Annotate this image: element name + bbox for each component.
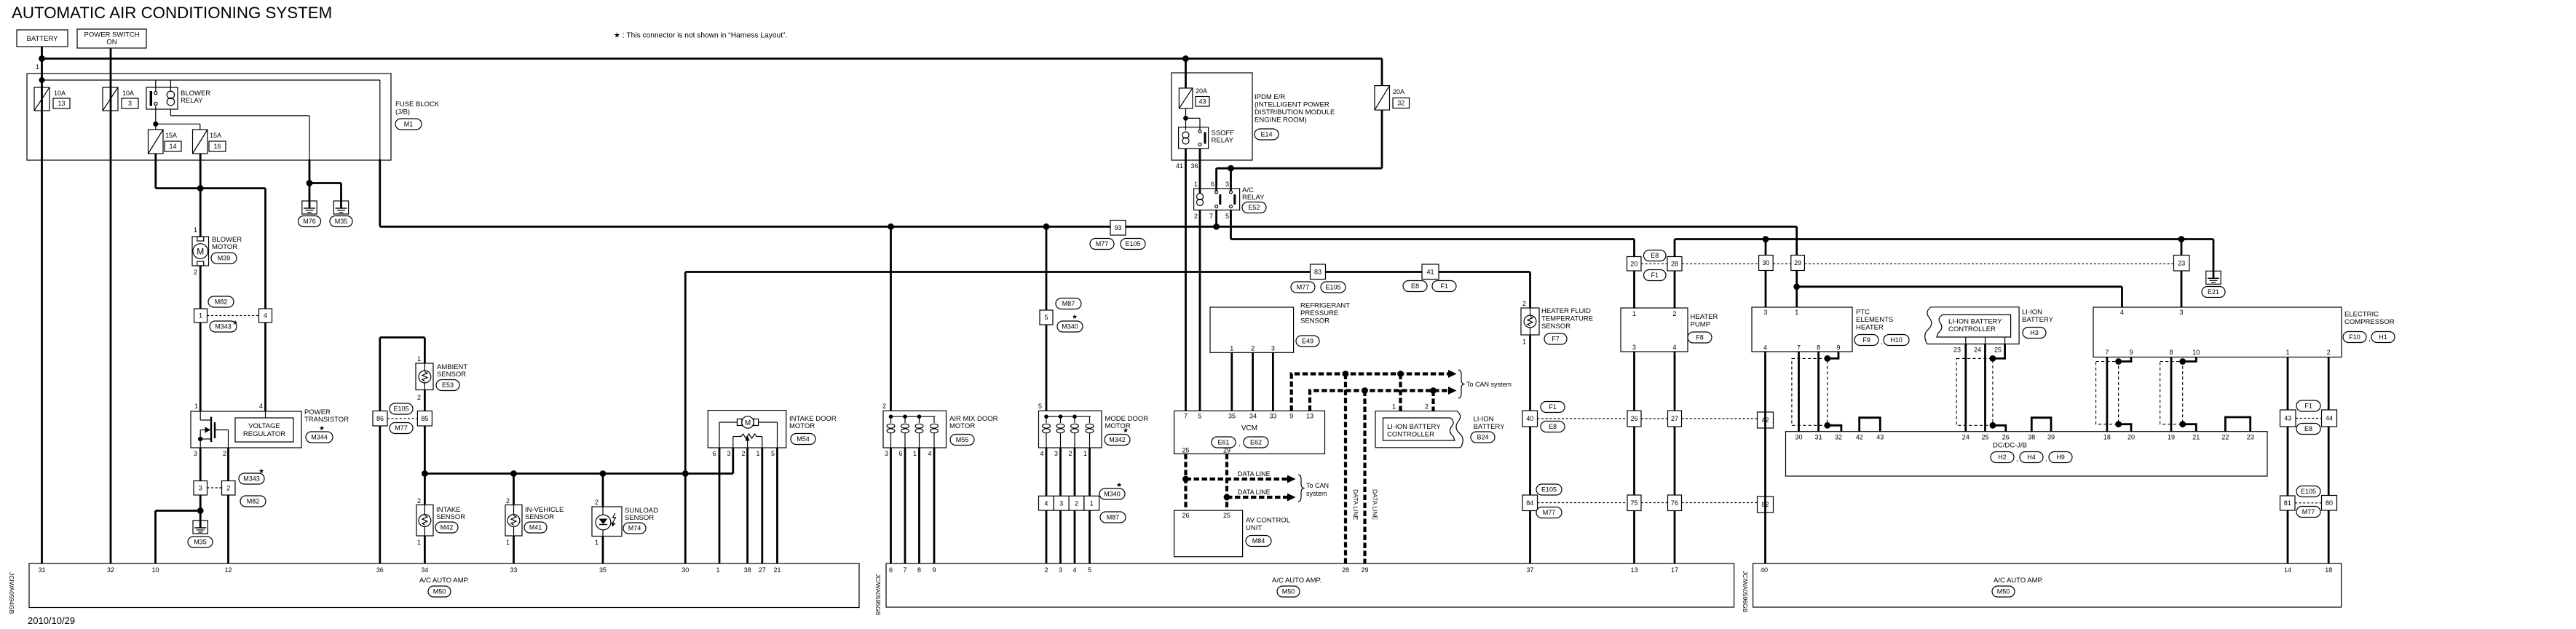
wire B24 pin2 <box>1431 391 1434 411</box>
svg-text:1: 1 <box>36 63 39 71</box>
motor leads <box>719 422 737 423</box>
svg-text:86: 86 <box>376 415 384 422</box>
svg-text:M343: M343 <box>243 475 260 483</box>
wire CAN upper from VCM9 <box>1292 374 1451 411</box>
fuse block (J/B) M1 <box>27 74 391 160</box>
svg-text:2: 2 <box>882 403 886 410</box>
svg-text:10A: 10A <box>54 90 66 97</box>
svg-text:7: 7 <box>1209 213 1213 220</box>
node IPDM branch <box>1182 55 1189 62</box>
svg-text:SENSOR: SENSOR <box>1300 317 1330 325</box>
svg-text:41: 41 <box>1426 268 1434 275</box>
voltage regulator <box>235 418 293 442</box>
svg-text:TEMPERATURE: TEMPERATURE <box>1541 315 1593 323</box>
svg-text:★: ★ <box>319 424 325 432</box>
svg-text:27: 27 <box>759 566 766 574</box>
svg-text:43: 43 <box>2284 415 2291 422</box>
svg-text:3: 3 <box>2179 309 2183 316</box>
svg-text:3: 3 <box>1054 450 1058 457</box>
connector M82/M343 pin 1 <box>194 309 208 323</box>
svg-text:25: 25 <box>1994 347 2002 354</box>
power switch on <box>77 29 146 48</box>
svg-text:23: 23 <box>1953 347 1961 354</box>
svg-text:E8: E8 <box>1651 252 1659 259</box>
node CAN data28 <box>1343 371 1349 377</box>
svg-text:H4: H4 <box>2027 454 2036 461</box>
wire bus to fuse43 <box>1185 59 1187 89</box>
svg-text:2010/10/29: 2010/10/29 <box>28 615 75 626</box>
svg-text:1: 1 <box>199 312 202 320</box>
svg-text:M82: M82 <box>215 298 228 306</box>
svg-text:H1: H1 <box>2379 333 2387 341</box>
svg-text:ON: ON <box>106 39 116 47</box>
node blower feed <box>197 185 204 191</box>
svg-text:7: 7 <box>2105 349 2109 356</box>
svg-text:1: 1 <box>913 450 917 457</box>
svg-text:84: 84 <box>1526 499 1533 507</box>
svg-text:DATA LINE: DATA LINE <box>1238 470 1271 478</box>
node fuse bus <box>39 77 45 83</box>
svg-text:4: 4 <box>1672 344 1676 351</box>
svg-text:1: 1 <box>1194 181 1198 188</box>
li-ion battery controller box 2 <box>1937 314 2011 337</box>
svg-text:F8: F8 <box>1696 334 1704 341</box>
node CAN data29 <box>1362 387 1368 394</box>
node PT ground <box>197 507 204 514</box>
svg-text:E53: E53 <box>442 381 454 389</box>
svg-text:26: 26 <box>1630 415 1637 422</box>
wire relay pin5 line B left <box>1230 210 1232 240</box>
svg-text:25: 25 <box>1223 512 1230 519</box>
svg-text:RELAY: RELAY <box>181 97 203 105</box>
shield dashed box PTC <box>1792 358 1828 425</box>
jumper 22-23 <box>2225 417 2250 432</box>
svg-text:VCM: VCM <box>1241 424 1257 432</box>
shield dashed box comp 1 <box>2096 362 2119 424</box>
svg-text:M35: M35 <box>335 218 348 225</box>
wire SSOFF 36 to AC relay 1 <box>1199 149 1201 194</box>
svg-text:CONTROLLER: CONTROLLER <box>1948 325 1996 333</box>
svg-text:REGULATOR: REGULATOR <box>243 430 285 438</box>
svg-text:2: 2 <box>1425 403 1429 411</box>
svg-text:5: 5 <box>1038 403 1042 410</box>
ground E21 <box>2213 240 2215 272</box>
connector 83 M77/E105 <box>1311 264 1326 280</box>
svg-text:2: 2 <box>1068 450 1072 457</box>
svg-text:★ : This connector is not show: ★ : This connector is not shown in “Harn… <box>614 32 787 40</box>
wire VCM25 data <box>1184 454 1187 510</box>
svg-text:E52: E52 <box>1248 204 1260 211</box>
svg-text:CONTROLLER: CONTROLLER <box>1387 431 1434 439</box>
wire M54 pin5 to amp21 <box>776 448 778 563</box>
fuse 32 20A <box>1381 59 1383 86</box>
wire fuse bus <box>42 79 380 81</box>
svg-text:2: 2 <box>506 497 510 505</box>
node compressor pin3 <box>2178 236 2185 242</box>
wire comp pin1 to amp14 <box>2287 357 2289 564</box>
svg-text:23: 23 <box>2178 259 2185 266</box>
wire M54 pin6 to amp1 <box>719 448 721 563</box>
wire PT pin3 down <box>199 448 202 481</box>
svg-text:5: 5 <box>1198 413 1201 420</box>
connector 75 <box>1627 495 1641 511</box>
svg-text:E105: E105 <box>2301 488 2316 495</box>
connector 20 <box>1633 240 1635 257</box>
svg-text:E49: E49 <box>1302 338 1313 345</box>
ground M35 <box>333 201 348 214</box>
svg-text:80: 80 <box>2326 499 2333 507</box>
svg-text:17: 17 <box>1671 566 1678 574</box>
svg-text:RELAY: RELAY <box>1212 137 1234 145</box>
svg-text:JCIWA0594GB: JCIWA0594GB <box>8 572 15 614</box>
svg-text:M41: M41 <box>529 524 542 531</box>
node air mix feed <box>888 223 894 230</box>
svg-text:6: 6 <box>898 450 902 457</box>
wire H3 pin25 shield <box>1993 344 2005 359</box>
svg-text:M343: M343 <box>215 323 232 331</box>
wire amp pin30 sensor line <box>684 272 687 564</box>
wire comp pin2 to amp18 <box>2328 357 2330 564</box>
wire SSOFF 41 to VCM7 <box>1185 149 1187 411</box>
svg-text:E8: E8 <box>1549 423 1557 430</box>
connector row M340/M87 4-3-2-1 <box>1039 496 1054 510</box>
svg-text:85: 85 <box>421 415 428 422</box>
svg-text:F10: F10 <box>2349 333 2360 341</box>
svg-text:33: 33 <box>510 566 517 574</box>
wire VCM29 data <box>1225 454 1228 510</box>
svg-text:3: 3 <box>1632 344 1636 351</box>
svg-text:1: 1 <box>506 539 510 546</box>
svg-text:2: 2 <box>2327 349 2331 356</box>
wire dashed row 30-29-23 <box>1682 263 1759 264</box>
svg-text:3: 3 <box>1059 566 1062 574</box>
wires air mix to amp <box>890 448 892 563</box>
svg-text:F9: F9 <box>1862 336 1870 344</box>
svg-text:41: 41 <box>1176 162 1183 170</box>
wire top bus <box>42 58 1383 60</box>
svg-text:9: 9 <box>1289 413 1293 420</box>
svg-text:★: ★ <box>1123 427 1129 434</box>
wire to grounds <box>309 159 311 201</box>
wires E49 to VCM <box>1230 352 1233 411</box>
wire dashed 1-4 <box>208 315 259 317</box>
svg-text:M39: M39 <box>218 255 231 262</box>
connector 41 E8/F1 <box>1422 264 1439 280</box>
svg-text:MOTOR: MOTOR <box>949 422 975 430</box>
svg-text:E21: E21 <box>2208 288 2219 296</box>
svg-text:system: system <box>1306 490 1327 497</box>
wire relay coil top pin <box>170 80 171 91</box>
svg-text:39: 39 <box>2047 434 2055 441</box>
wire dashed 20-28 <box>1641 263 1667 264</box>
svg-text:To CAN system: To CAN system <box>1466 381 1512 388</box>
svg-text:10: 10 <box>2192 349 2200 356</box>
wire data arrow 2 <box>1227 496 1290 499</box>
wire motor to connector 1 <box>199 266 202 309</box>
svg-text:E8: E8 <box>2304 425 2312 432</box>
svg-text:★: ★ <box>1116 481 1122 488</box>
svg-text:DC/DC-J/B: DC/DC-J/B <box>1993 442 2027 450</box>
wires mode door to connector row <box>1046 448 1048 496</box>
IPDM E/R E14 <box>1172 73 1252 160</box>
svg-text:DATA LINE: DATA LINE <box>1352 489 1359 521</box>
svg-text:26: 26 <box>2002 434 2010 441</box>
svg-text:PRESSURE: PRESSURE <box>1300 309 1338 317</box>
svg-text:FUSE BLOCK: FUSE BLOCK <box>395 100 440 108</box>
svg-text:2: 2 <box>417 394 421 401</box>
svg-text:1: 1 <box>1392 403 1396 411</box>
wire data arrow 1 <box>1186 478 1291 480</box>
wire relay contact top pin <box>155 80 157 91</box>
node ac relay pin7 <box>1213 223 1220 230</box>
wire comp pin7 <box>2106 357 2108 432</box>
dashed rows 84-75-76-82 <box>1538 502 1628 504</box>
wire main feed line A <box>379 159 381 226</box>
svg-text:RELAY: RELAY <box>1242 194 1265 202</box>
svg-text:21: 21 <box>2192 434 2200 441</box>
svg-text:4: 4 <box>928 450 931 457</box>
svg-text:35: 35 <box>1228 413 1236 420</box>
svg-text:12: 12 <box>224 566 232 574</box>
node contact-fuse14 <box>153 122 158 127</box>
connector M343/M82 pin 3 <box>194 481 208 496</box>
node data line 2 <box>1224 494 1230 501</box>
ground M35 lower <box>193 521 208 534</box>
svg-text:2: 2 <box>223 450 226 457</box>
svg-text:2: 2 <box>1075 499 1078 507</box>
svg-text:M76: M76 <box>303 218 316 225</box>
svg-text:28: 28 <box>1671 260 1678 267</box>
svg-text:75: 75 <box>1630 499 1637 507</box>
svg-text:A/C AUTO AMP.: A/C AUTO AMP. <box>1272 577 1321 585</box>
connector 81 E105/M77 <box>2280 496 2296 510</box>
svg-text:30: 30 <box>681 566 689 574</box>
svg-text:M340: M340 <box>1104 491 1121 498</box>
node battery junction <box>39 55 45 62</box>
svg-text:29: 29 <box>1361 566 1368 574</box>
fuse 16 15A <box>193 130 208 154</box>
svg-text:30: 30 <box>1762 259 1769 266</box>
svg-text:42: 42 <box>1856 434 1863 441</box>
ground M76 <box>302 201 317 214</box>
svg-text:E105: E105 <box>1125 240 1140 248</box>
transistor symbol <box>199 411 201 420</box>
wire comp pin10 shield <box>2183 357 2197 362</box>
dashed rows 40-26-27-42 <box>1538 418 1628 419</box>
AV control unit M84 <box>1174 510 1243 557</box>
svg-text:IPDM E/R: IPDM E/R <box>1255 93 1285 101</box>
svg-text:3: 3 <box>1225 181 1229 188</box>
svg-text:43: 43 <box>1876 434 1884 441</box>
svg-text:M77: M77 <box>1096 240 1109 248</box>
svg-text:M344: M344 <box>311 434 328 441</box>
svg-text:2: 2 <box>226 484 230 491</box>
svg-text:23: 23 <box>2247 434 2254 441</box>
svg-text:8: 8 <box>917 566 921 574</box>
wire H3 pin23 <box>1964 344 1967 432</box>
svg-text:M84: M84 <box>1252 537 1265 545</box>
svg-text:31: 31 <box>38 566 45 574</box>
wire PTC pin7 <box>1798 352 1800 432</box>
svg-text:14: 14 <box>169 143 176 150</box>
wire H3 pin24 <box>1984 344 1986 432</box>
svg-text:8: 8 <box>2169 349 2173 356</box>
svg-text:34: 34 <box>1249 413 1257 420</box>
wire power switch down <box>110 48 112 563</box>
svg-text:14: 14 <box>2284 566 2291 574</box>
svg-text:26: 26 <box>1182 512 1189 519</box>
wire sensor ground bus <box>424 472 732 475</box>
connector 84 E105/M77 <box>1522 495 1538 511</box>
svg-text:JCIWA0595GB: JCIWA0595GB <box>874 574 882 616</box>
svg-text:5: 5 <box>1044 314 1048 321</box>
A/C auto amp M50 strip 3 <box>1753 563 2342 607</box>
svg-text:36: 36 <box>1190 162 1198 170</box>
svg-text:★: ★ <box>1072 313 1078 320</box>
svg-text:M50: M50 <box>1997 588 2010 596</box>
svg-text:25: 25 <box>1981 434 1988 441</box>
svg-text:9: 9 <box>932 566 936 574</box>
wire data line 28 <box>1344 374 1347 564</box>
svg-text:M77: M77 <box>395 424 408 432</box>
svg-text:4: 4 <box>1072 566 1076 574</box>
svg-text:1: 1 <box>417 355 421 363</box>
svg-text:(J/B): (J/B) <box>395 108 410 116</box>
svg-text:4: 4 <box>259 403 263 410</box>
svg-text:F1: F1 <box>1549 403 1557 411</box>
svg-text:10: 10 <box>151 566 159 574</box>
wire comp pin8 <box>2170 357 2173 432</box>
svg-text:1: 1 <box>1090 499 1094 507</box>
svg-text:81: 81 <box>2284 499 2291 507</box>
svg-text:35: 35 <box>599 566 607 574</box>
wire line B right to ground <box>1675 238 2213 240</box>
svg-text:E105: E105 <box>1325 284 1340 291</box>
svg-text:M340: M340 <box>1062 323 1078 331</box>
svg-text:,: , <box>2016 455 2018 462</box>
node bus in-vehicle <box>510 470 517 477</box>
svg-text:13: 13 <box>58 100 65 107</box>
wire ambient to 85 <box>424 390 426 411</box>
connector 30 <box>1765 240 1767 256</box>
svg-text:DISTRIBUTION MODULE: DISTRIBUTION MODULE <box>1255 108 1335 116</box>
intake door motor M54 <box>708 411 786 448</box>
wire to fuse 16 <box>156 123 200 124</box>
svg-text:20: 20 <box>1630 260 1637 267</box>
wire PTC pin8 <box>1817 352 1820 432</box>
node mode feed <box>1043 223 1050 230</box>
svg-text:A/C AUTO AMP.: A/C AUTO AMP. <box>419 577 469 585</box>
node CAN b24-1 <box>1397 371 1404 377</box>
wire line A to air mix <box>890 226 892 411</box>
svg-text:24: 24 <box>1962 434 1969 441</box>
svg-text:SENSOR: SENSOR <box>436 513 465 521</box>
wire to connector 4 <box>264 189 266 309</box>
svg-text:6: 6 <box>889 566 893 574</box>
svg-text:13: 13 <box>1306 413 1313 420</box>
svg-text:MOTOR: MOTOR <box>789 422 815 430</box>
svg-text:8: 8 <box>1817 344 1820 352</box>
connector 44 <box>2322 410 2337 427</box>
wire 85 to sensor bus <box>424 426 426 505</box>
li-ion battery H3 container <box>1925 307 2019 344</box>
connector 28 <box>1674 240 1676 257</box>
svg-text:76: 76 <box>1671 499 1678 507</box>
svg-text:M50: M50 <box>1282 588 1295 596</box>
svg-text:M74: M74 <box>628 525 641 532</box>
svg-text:20: 20 <box>2127 434 2135 441</box>
wire dashed 86-85 <box>387 418 417 419</box>
svg-text:SENSOR: SENSOR <box>1541 323 1571 331</box>
A/C auto amp M50 strip 2 <box>886 563 1734 607</box>
fuse 13 10A <box>34 87 50 111</box>
svg-text:DATA LINE: DATA LINE <box>1238 488 1271 496</box>
svg-text:2: 2 <box>1522 300 1526 307</box>
svg-text:,: , <box>1881 338 1883 345</box>
wire PT pin2 down <box>227 448 229 481</box>
svg-text:M50: M50 <box>433 588 446 596</box>
svg-text:43: 43 <box>1198 98 1206 105</box>
svg-text:5: 5 <box>1088 566 1091 574</box>
svg-text:E62: E62 <box>1250 439 1262 446</box>
svg-text:M54: M54 <box>797 435 810 443</box>
svg-text:1: 1 <box>1632 310 1636 317</box>
svg-text:20A: 20A <box>1393 88 1404 95</box>
svg-text:37: 37 <box>1526 566 1533 574</box>
svg-text:PTC: PTC <box>1856 309 1870 317</box>
svg-text:To CAN: To CAN <box>1306 482 1329 489</box>
wires connector row to amp <box>1046 510 1048 563</box>
shield dashed box H3 <box>1956 358 1993 425</box>
wire data line 29 <box>1363 391 1366 564</box>
svg-text:E105: E105 <box>1541 486 1557 494</box>
svg-text:,: , <box>2368 335 2371 342</box>
svg-text:1: 1 <box>1230 345 1233 352</box>
connector 85 (E105/M77) <box>417 411 432 427</box>
potentiometer <box>741 434 756 438</box>
li-ion battery B24 container <box>1375 411 1463 448</box>
svg-text:COMPRESSOR: COMPRESSOR <box>2344 318 2395 326</box>
svg-text:M342: M342 <box>1109 436 1126 443</box>
svg-text:31: 31 <box>1815 434 1822 441</box>
svg-text:2: 2 <box>417 497 421 505</box>
svg-text:38: 38 <box>2028 434 2035 441</box>
svg-text:SENSOR: SENSOR <box>437 371 466 379</box>
wire F7 to amp37 <box>1529 335 1531 563</box>
svg-text:2: 2 <box>1194 213 1198 220</box>
wire comp pin9 shield <box>2119 357 2131 362</box>
svg-text:32: 32 <box>1835 434 1842 441</box>
svg-text:19: 19 <box>2168 434 2175 441</box>
svg-text:E14: E14 <box>1260 131 1272 138</box>
svg-text:10A: 10A <box>122 90 134 97</box>
svg-text:3: 3 <box>199 484 202 491</box>
connector 82 <box>1758 497 1774 513</box>
wire fuse16 output <box>199 154 202 237</box>
wire dashed 3-2 <box>208 487 222 488</box>
svg-text:,: , <box>1238 440 1241 447</box>
node bus pin30 <box>682 470 689 477</box>
svg-text:REFRIGERANT: REFRIGERANT <box>1300 302 1350 310</box>
wire connector4 to PT <box>264 323 266 411</box>
wire relay pin7 to line A <box>1215 210 1217 227</box>
connector 42 <box>1758 412 1774 428</box>
brace to CAN <box>1458 370 1464 398</box>
svg-text:1: 1 <box>1522 339 1526 346</box>
svg-text:24: 24 <box>1974 347 1981 354</box>
svg-text:A/C AUTO AMP.: A/C AUTO AMP. <box>1994 577 2043 585</box>
svg-text:16: 16 <box>213 143 221 150</box>
